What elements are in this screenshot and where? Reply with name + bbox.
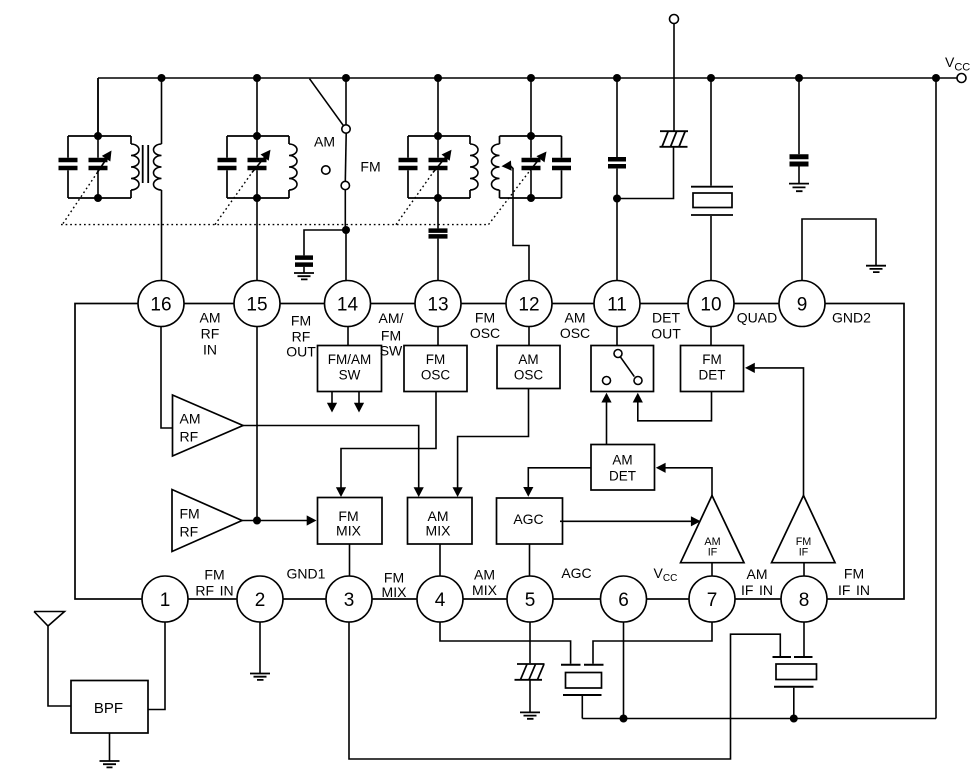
wire pin8 to CF2 (803, 622, 805, 656)
wire C11 from rail (616, 78, 618, 157)
svg-text:8: 8 (799, 590, 810, 611)
svg-text:SW: SW (339, 368, 361, 383)
svg-text:FM: FM (475, 310, 495, 326)
svg-text:11: 11 (607, 294, 627, 315)
wire FM MIX to pin 3 (349, 544, 351, 576)
wire AM IF to AM DET (663, 468, 712, 496)
switch S1 AM/FM band select diagonal wire (310, 79, 344, 126)
svg-text:12: 12 (518, 294, 539, 315)
svg-text:IN: IN (203, 342, 217, 358)
wire pin10 to FM DET block (710, 327, 712, 346)
svg-text:14: 14 (337, 294, 359, 315)
op-amp FM IF amplifier (772, 496, 836, 563)
wire pin5 to trimmer (529, 622, 531, 663)
wire coil tap to pin 12 (509, 164, 529, 280)
wire CF1 output to pin 7 (593, 622, 712, 664)
wire tank1 varicap leads (97, 78, 99, 198)
wire transformer secondary to rail (161, 78, 163, 144)
wire AM OSC to AM MIX (458, 389, 529, 490)
arrow FM/AM SW control 2 (358, 392, 360, 405)
switch S2 arm (620, 357, 634, 377)
svg-text:10: 10 (700, 294, 721, 315)
wire BPF to ground (109, 733, 111, 761)
svg-text:IF: IF (708, 547, 718, 559)
svg-text:AM: AM (612, 453, 632, 468)
switch S1 arm (344, 134, 347, 182)
node rail right corner junction (932, 74, 940, 82)
svg-text:OSC: OSC (560, 325, 590, 341)
svg-text:RF: RF (292, 329, 311, 345)
svg-text:AM: AM (747, 566, 768, 582)
svg-text:FM: FM (426, 352, 446, 367)
pin 8 (781, 576, 827, 622)
wire AM MIX to pin 4 (439, 544, 441, 576)
VCC rail wire (98, 77, 957, 79)
node rail-X10 junction (707, 74, 715, 82)
tank T4 frame AM OSC tuned circuit (500, 136, 562, 198)
op-amp FM RF amplifier (172, 490, 242, 552)
svg-text:AM: AM (200, 310, 221, 326)
wire tank4 varicap leads (530, 78, 532, 198)
svg-text:MIX: MIX (382, 584, 408, 600)
svg-text:FM: FM (381, 328, 401, 344)
svg-text:16: 16 (150, 294, 171, 315)
node tank3 bottom (434, 194, 442, 202)
pin 12 (506, 281, 552, 327)
arrow coil tap L5 (501, 161, 511, 172)
pin 4 (417, 576, 463, 622)
svg-text:QUAD: QUAD (737, 310, 777, 326)
block AM OSC (497, 346, 560, 389)
ground (C14) (294, 273, 314, 279)
svg-text:4: 4 (435, 590, 446, 611)
wire pin2 to ground (259, 622, 261, 673)
wire pin4 to AM IF filter (440, 622, 571, 664)
pin 16 (138, 281, 184, 327)
inductor L3 FM RF coil (289, 144, 297, 190)
inductor L4 FM OSC coil (470, 144, 478, 190)
svg-text:1: 1 (160, 590, 171, 611)
arrow variable cap T2 (252, 156, 266, 173)
pin 11 (594, 281, 640, 327)
svg-text:RF: RF (201, 326, 220, 342)
inductor L5 AM OSC coil tapped (492, 144, 500, 190)
wire pin15 into IC to FM RF node (256, 327, 258, 521)
node rail-T1 junction (158, 74, 166, 82)
wire C11 to node (616, 169, 618, 199)
svg-text:VCC: VCC (945, 54, 970, 74)
wire AM DET to det switch (606, 401, 608, 445)
wire tank2 varicap leads (256, 78, 258, 198)
wire tank3 varicap leads (437, 78, 439, 198)
pin 10 (688, 281, 734, 327)
wire AM DET to AGC (528, 468, 591, 488)
wire pin6 to VCC bus (623, 622, 625, 719)
svg-text:OSC: OSC (470, 325, 500, 341)
svg-text:OSC: OSC (514, 368, 544, 383)
svg-text:SW: SW (380, 343, 403, 359)
gang dashed link T1 (63, 173, 97, 224)
capacitor C2a fixed (tank2 left) (218, 160, 237, 168)
svg-text:AM: AM (474, 567, 495, 583)
wire trimmer to det-out node (617, 147, 674, 199)
svg-text:FM: FM (844, 566, 864, 582)
svg-text:FM: FM (180, 506, 200, 522)
svg-text:IF IN: IF IN (838, 582, 870, 598)
wire rail to switch top contact (345, 78, 347, 125)
node rail-T2 junction (253, 74, 261, 82)
svg-text:AM: AM (180, 411, 201, 427)
gang dashed link T2 (215, 173, 252, 225)
block BPF bandpass filter (71, 681, 148, 734)
wire CF1 to bus (581, 696, 583, 719)
capacitor C2b variable (tank2 gang section) (248, 160, 267, 168)
wire tank2 bottom to pin 15 (256, 198, 258, 281)
wire rail to Cdec (798, 78, 800, 154)
inductor L1 transformer primary (131, 144, 139, 190)
wire pin14 to FM/AM SW block (347, 327, 349, 346)
svg-text:FM: FM (291, 313, 311, 329)
svg-text:RF IN: RF IN (195, 583, 233, 599)
ceramic filter CF1 AM plates (561, 665, 604, 695)
node tank1 bottom (94, 194, 102, 202)
ground (BPF) (100, 761, 120, 767)
capacitor C1b variable (tank1 gang section) (89, 160, 108, 168)
trimmer RT2 hatched symbol (pin5) (515, 664, 545, 680)
svg-text:RF: RF (180, 429, 199, 445)
block FM OSC (404, 346, 467, 392)
block detector output switch (591, 346, 654, 392)
pin 15 (234, 281, 280, 327)
arrow FM/AM SW control 1 (331, 392, 333, 405)
svg-text:3: 3 (344, 590, 355, 611)
svg-text:FM: FM (360, 159, 380, 175)
ground (pin5 trimmer) (520, 712, 540, 718)
block FM/AM SW (318, 346, 382, 392)
wire pin3 to FM IF filter (349, 622, 780, 759)
pin 3 (326, 576, 372, 622)
wire FM IF to FM DET (752, 368, 804, 496)
wire AGC to pin 5 (529, 544, 531, 576)
wire rail to X10 (710, 78, 712, 186)
svg-text:BPF: BPF (94, 700, 123, 717)
VCC terminal (957, 74, 966, 83)
svg-text:MIX: MIX (426, 523, 452, 539)
wire pin1 to BPF (148, 622, 165, 710)
wire pin16 to AM RF amp input (161, 327, 173, 429)
svg-text:15: 15 (246, 294, 267, 315)
svg-text:2: 2 (255, 590, 266, 611)
pin 7 (689, 576, 735, 622)
wire pin13 to FM OSC block (437, 327, 439, 346)
capacitor C4b fixed (tank4 right) (552, 160, 571, 168)
svg-text:AM: AM (314, 134, 335, 150)
svg-text:VCC: VCC (654, 565, 678, 584)
pin 14 (325, 281, 371, 327)
pin 6 (601, 576, 647, 622)
node FM RF output junction (253, 517, 261, 525)
ground (Cdec) (789, 184, 809, 192)
svg-text:DET: DET (699, 368, 726, 383)
svg-text:OSC: OSC (421, 368, 451, 383)
wire CF2 to bus (793, 688, 795, 719)
wire transformer secondary to pin 16 (161, 190, 163, 281)
arrow variable cap T1 (97, 158, 107, 173)
wire VCC right vertical to bottom bus (935, 78, 937, 719)
node rail-T3 junction (434, 74, 442, 82)
pin 13 (415, 281, 461, 327)
wire pin11 to det switch block (616, 327, 618, 346)
ceramic filter CF1 AM body (566, 673, 602, 689)
svg-text:AM/: AM/ (379, 310, 404, 326)
wire AM RF out to AM MIX (243, 426, 419, 490)
tank T3 frame FM OSC tuned circuit (408, 136, 470, 198)
svg-text:7: 7 (707, 590, 718, 611)
node tank3 top (434, 132, 442, 140)
svg-text:FM/AM: FM/AM (328, 352, 372, 367)
svg-text:9: 9 (797, 294, 808, 315)
pin 2 (237, 576, 283, 622)
wire X10 to pin 10 (710, 216, 712, 281)
svg-text:GND1: GND1 (287, 566, 326, 582)
wire switch bottom contact to pin 14 (344, 190, 347, 281)
capacitor C3a fixed (tank3 left) (399, 160, 418, 168)
block FM MIX (318, 498, 383, 545)
svg-text:FM: FM (204, 567, 224, 583)
block AM DET (591, 445, 655, 491)
node tank1 top (94, 132, 102, 140)
switch S1 top contact (342, 125, 350, 133)
node rail-switch junction (342, 74, 350, 82)
wire trimmer to ground (529, 681, 531, 713)
node switch-C14 junction (342, 226, 350, 234)
inductor L2 transformer secondary (154, 144, 162, 190)
svg-text:AM: AM (518, 352, 538, 367)
wire C14 to ground (303, 267, 305, 273)
pin 5 (507, 576, 553, 622)
switch S1 bottom contact (341, 181, 349, 189)
ground (GND1 pin2) (250, 674, 270, 680)
wire FM DET to det switch (638, 392, 712, 421)
node bus pin6 junction (620, 715, 628, 723)
op-amp AM RF amplifier (173, 395, 244, 456)
switch S2 top contact (614, 350, 622, 358)
block AGC (497, 498, 563, 544)
svg-text:DET: DET (652, 310, 680, 326)
svg-text:FM: FM (702, 352, 722, 367)
pin 9 (779, 281, 825, 327)
wire junction to C14 (304, 230, 346, 255)
arrow variable cap T4 (530, 156, 542, 171)
svg-text:OUT: OUT (651, 326, 681, 342)
capacitor C13 series (pin13) (429, 231, 448, 237)
antenna ANT1 (34, 612, 71, 707)
node rail-T4 junction (527, 74, 535, 82)
wire node to pin 11 (616, 199, 618, 281)
block AM MIX (408, 498, 473, 545)
svg-text:RF: RF (180, 524, 199, 540)
node tank2 bottom (253, 194, 261, 202)
wire DET OUT top terminal lead (673, 24, 675, 131)
node tank4 top (527, 132, 535, 140)
svg-text:DET: DET (609, 469, 636, 484)
wire FM OSC to FM MIX (341, 392, 436, 490)
ceramic filter CF2 FM plates (773, 657, 814, 687)
tank T2 frame FM RF tuned circuit (227, 136, 289, 198)
svg-text:IF IN: IF IN (741, 582, 773, 598)
wire pin12 to AM OSC block (528, 327, 530, 346)
pin 1 (142, 576, 188, 622)
ceramic filter CF2 FM body (776, 664, 817, 680)
tank T1 frame AM RF input tuned circuit (68, 136, 131, 198)
wire C13 to pin 13 (437, 239, 439, 281)
wire Cdec to ground (798, 167, 800, 184)
IC U1 body outline (75, 304, 904, 600)
capacitor C4a variable (tank4 gang section) (522, 160, 541, 168)
switch S2 left contact (603, 377, 611, 385)
gang dashed link T3 (396, 173, 433, 225)
ground (GND2 pin9) (866, 266, 886, 272)
svg-text:AM: AM (565, 310, 586, 326)
svg-text:GND2: GND2 (832, 310, 871, 326)
gang dashed link T4 (489, 171, 531, 225)
terminal DET OUT top (670, 15, 679, 24)
node det-out junction (613, 195, 621, 203)
capacitor C11 (pin11) (608, 159, 626, 166)
switch S1 AM contact (322, 166, 330, 174)
svg-text:5: 5 (525, 590, 536, 611)
node bus CF2 junction (790, 715, 798, 723)
trimmer RT1 hatched symbol (660, 131, 689, 147)
wire FM IF to pin 8 (803, 563, 805, 576)
node rail-Cdec junction (795, 74, 803, 82)
svg-text:OUT: OUT (286, 344, 316, 360)
capacitor C14 (pin14 bypass) (295, 258, 313, 265)
wire AGC to AM IF (560, 520, 692, 522)
svg-text:MIX: MIX (472, 582, 498, 598)
svg-text:MIX: MIX (336, 523, 362, 539)
transformer T1 core (143, 145, 149, 183)
switch S2 right contact (634, 377, 642, 385)
wire rail left end down to tank 1 (97, 78, 99, 136)
resonator X10 quad detector (691, 187, 733, 215)
wire VCC bottom bus (582, 718, 936, 720)
svg-text:6: 6 (618, 590, 629, 611)
capacitor C1a fixed (tank1 left) (59, 160, 78, 168)
svg-text:IF: IF (799, 547, 809, 559)
wire pin 9 to ground (802, 219, 876, 281)
arrow variable cap T3 (433, 156, 447, 173)
block FM DET (681, 346, 744, 392)
gang capacitor dotted bus (61, 224, 489, 226)
svg-text:AGC: AGC (561, 565, 591, 581)
op-amp AM IF amplifier (681, 496, 745, 563)
svg-text:AGC: AGC (513, 511, 543, 527)
wire FM RF out to FM MIX (242, 520, 308, 522)
svg-text:13: 13 (427, 294, 448, 315)
wire AM IF to pin 7 (711, 563, 713, 576)
node tank4 bottom (527, 194, 535, 202)
node rail-C11 junction (613, 74, 621, 82)
capacitor C3b variable (tank3 gang section) (429, 160, 448, 168)
wire tank3 bottom to C13 (437, 198, 439, 228)
node tank2 top (253, 132, 261, 140)
capacitor Cdec VCC decoupling (790, 157, 809, 164)
